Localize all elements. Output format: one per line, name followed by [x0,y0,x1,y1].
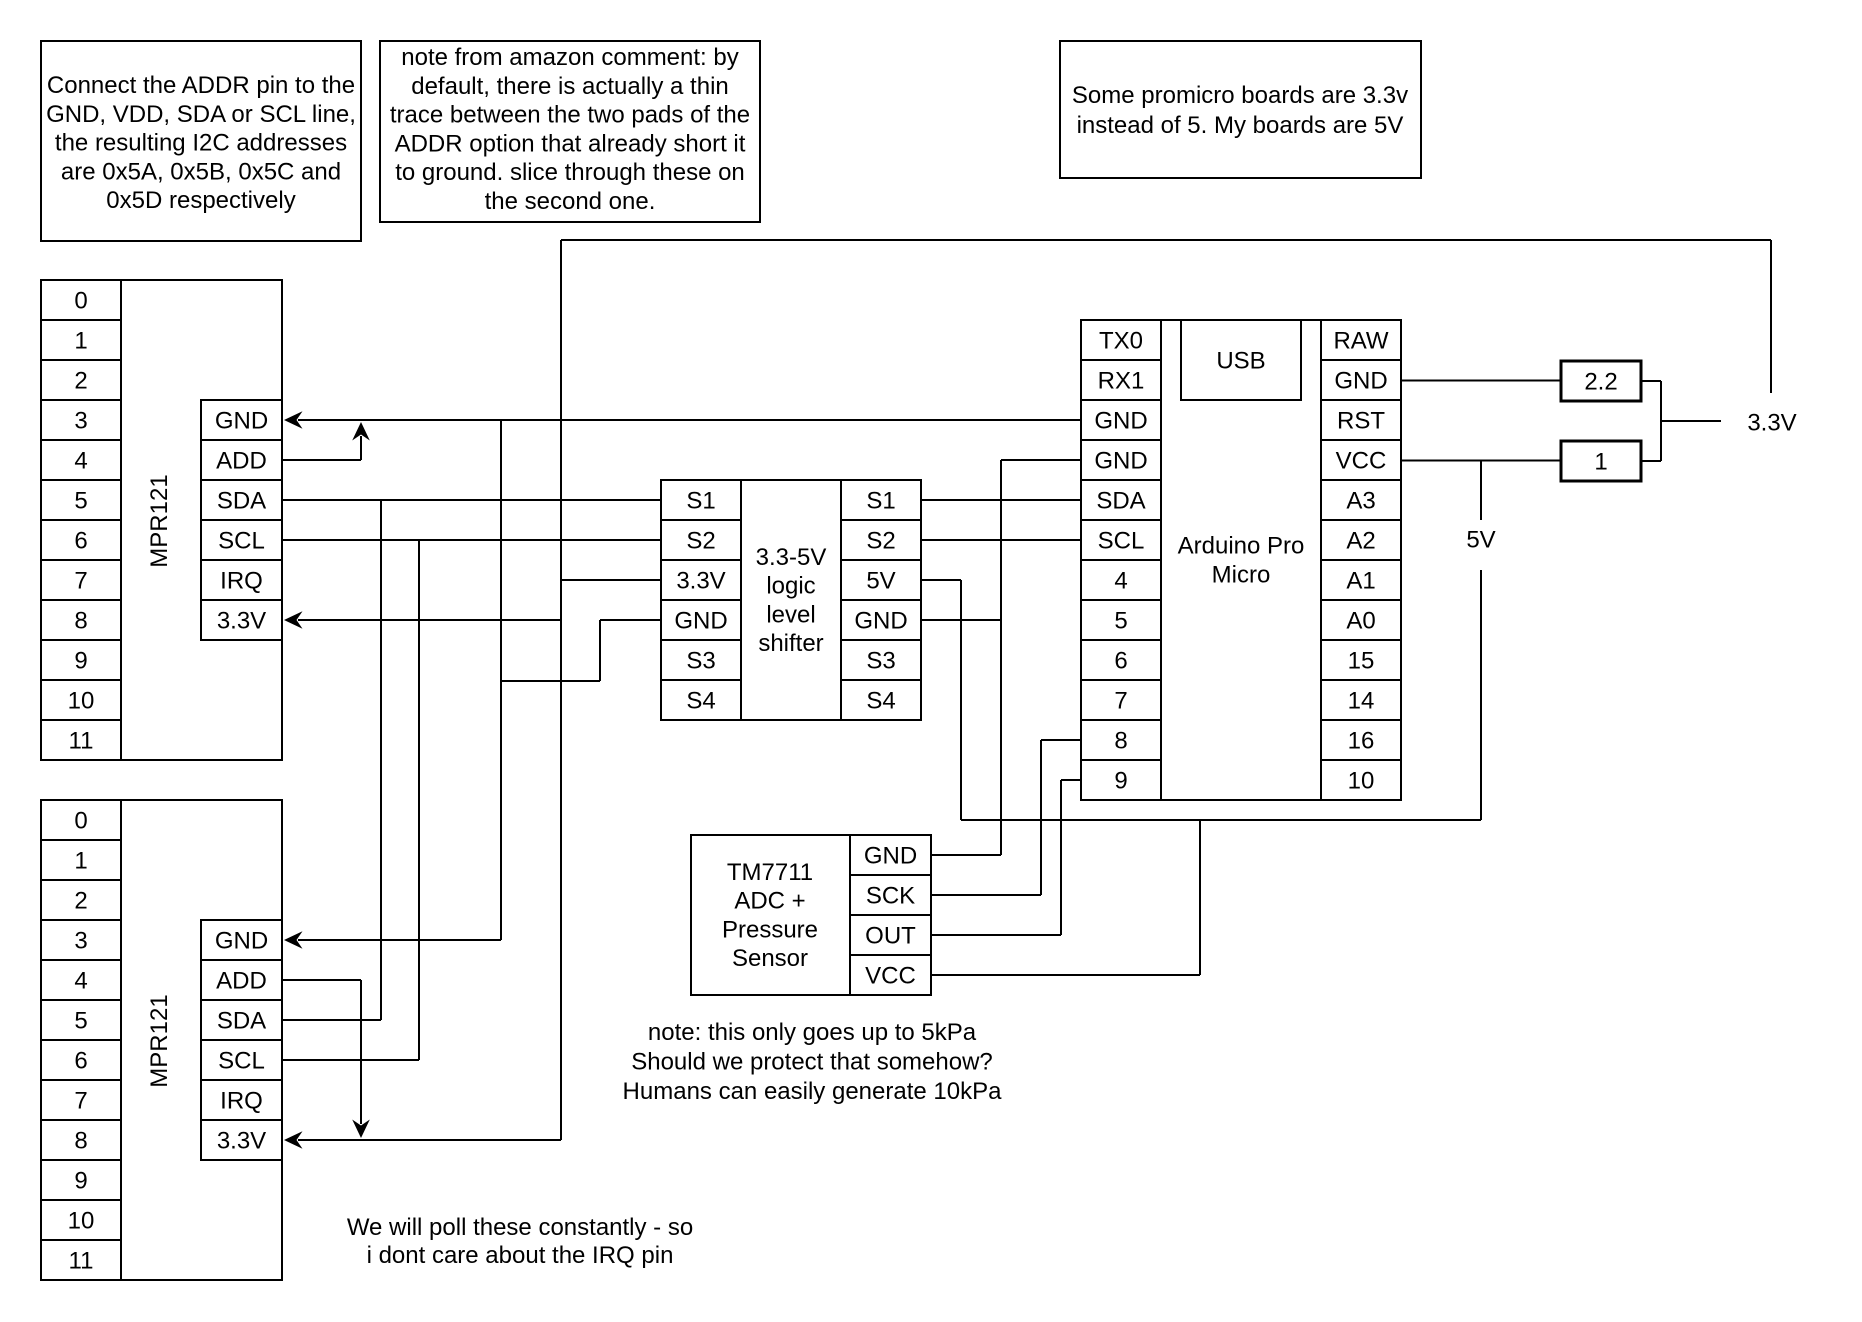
pin 3 [41,400,121,440]
svg-text:S3: S3 [866,648,895,675]
pin 6 [41,1040,121,1080]
wire U2 SCL stub [282,1059,419,1061]
pin GND [1081,440,1161,480]
wire SCL2 vertical [418,540,420,1060]
arrow into U1 3.3V [284,611,303,629]
svg-text:VCC: VCC [1336,448,1387,475]
pin 4 [41,960,121,1000]
svg-text:4: 4 [74,448,87,475]
pin S1 [841,480,921,520]
svg-text:SCL: SCL [218,528,265,555]
svg-text:S1: S1 [686,488,715,515]
wire U3 S2 to Arduino SCL [921,539,1081,541]
wire GND jog vertical [599,620,601,681]
svg-text:3: 3 [74,928,87,955]
note box: ADDR pin connection note [41,41,361,241]
pin 10 [1321,760,1401,800]
pin 8 [1081,720,1161,760]
arrow into U2 3.3V [284,1131,303,1149]
svg-text:GND: GND [1094,408,1147,435]
wire U5 GND stub [931,854,1001,856]
note box: promicro board voltage [1060,41,1421,178]
svg-text:RST: RST [1337,408,1385,435]
pin 1 [41,840,121,880]
pin IRQ [201,1080,282,1120]
wire GND jog to trunk [501,680,600,682]
pin 10 [41,1200,121,1240]
wire SCL1: U1 SCL to U3 S2 [282,539,661,541]
pin 5 [41,1000,121,1040]
svg-text:ADD: ADD [216,968,267,995]
wire 3.3V top run [561,239,1771,241]
pin ADD [201,440,282,480]
pin 1 [41,320,121,360]
wire U1 ADD riser to GND wire [360,436,362,460]
svg-text:A3: A3 [1346,488,1375,515]
pin A3 [1321,480,1401,520]
svg-text:GND: GND [864,843,917,870]
wire U5 SCK stub [931,894,1041,896]
svg-text:4: 4 [1114,568,1127,595]
svg-text:A2: A2 [1346,528,1375,555]
pin VCC [850,955,931,995]
pin IRQ [201,560,282,600]
wire 3.3V feed drop to label [1770,240,1772,393]
U1 electrode pin column 0-11 [41,280,121,760]
pin 5 [41,480,121,520]
wire SCK riser [1040,740,1042,895]
wire 5V riser upper segment [1480,460,1482,520]
svg-text:We will poll these constantly: We will poll these constantly - soi dont… [347,1214,693,1269]
svg-text:SCK: SCK [866,883,915,910]
pin SCL [1081,520,1161,560]
svg-text:SDA: SDA [217,1008,266,1035]
pin GND [1321,360,1401,400]
pin 9 [1081,760,1161,800]
U2 electrode pin column 0-11 [41,800,121,1280]
note box: amazon comment about ADDR trace [380,41,760,222]
wire 5V drop to U5 VCC [1199,820,1201,975]
pin 9 [41,1160,121,1200]
svg-text:RX1: RX1 [1098,368,1145,395]
svg-text:VCC: VCC [865,963,916,990]
wire U3 S1 to Arduino SDA [921,499,1081,501]
pin RST [1321,400,1401,440]
pin 14 [1321,680,1401,720]
svg-text:9: 9 [74,648,87,675]
svg-text:3.3V: 3.3V [217,1128,266,1155]
pin 8 [41,1120,121,1160]
wire U3 3.3V stub [561,579,661,581]
svg-text:SDA: SDA [217,488,266,515]
svg-text:6: 6 [1114,648,1127,675]
wire U2 ADD stub [282,979,361,981]
arrow U2 ADD to 3.3V junction [352,1120,370,1139]
pin RAW [1321,320,1401,360]
svg-text:GND: GND [854,608,907,635]
wire 5V riser right of U3 [960,580,962,820]
svg-text:8: 8 [1114,728,1127,755]
pin SDA [201,1000,282,1040]
svg-text:5: 5 [74,1008,87,1035]
wire SDA1: U1 SDA to U3 S1 [282,499,661,501]
pin SDA [201,480,282,520]
svg-text:5V: 5V [1466,527,1495,554]
pin 4 [1081,560,1161,600]
pin 3 [41,920,121,960]
wire Arduino VCC to R2 [1401,460,1561,462]
svg-text:S4: S4 [686,688,715,715]
pin 7 [41,560,121,600]
wire GND riser to Arduino GND2 [1000,460,1002,855]
wire R2 right stub [1641,460,1661,462]
svg-text:11: 11 [69,728,94,755]
svg-text:4: 4 [74,968,87,995]
svg-text:7: 7 [74,568,87,595]
svg-text:ADD: ADD [216,448,267,475]
wire GND to U3 GND jog horizontal [600,619,661,621]
pin SCL [201,1040,282,1080]
wire U2 ADD drop to 3.3V wire [360,980,362,1124]
pin 5V [841,560,921,600]
pin 8 [41,600,121,640]
svg-text:3.3V: 3.3V [1747,410,1796,437]
pin S2 [841,520,921,560]
svg-text:TM7711ADC +PressureSensor: TM7711ADC +PressureSensor [722,858,818,971]
pin RX1 [1081,360,1161,400]
pin GND [1081,400,1161,440]
svg-text:5: 5 [1114,608,1127,635]
pin S4 [841,680,921,720]
pin 7 [1081,680,1161,720]
svg-text:3.3V: 3.3V [217,608,266,635]
pin 6 [1081,640,1161,680]
svg-text:9: 9 [74,1168,87,1195]
pin 9 [41,640,121,680]
svg-text:IRQ: IRQ [220,568,263,595]
wire Arduino GND to R1 [1401,380,1561,382]
touch sensor U2 MPR121 (lower) body [121,800,282,1280]
svg-text:GND: GND [674,608,727,635]
sensor U5 TM7711 ADC + Pressure Sensor body [691,835,850,995]
svg-text:5: 5 [74,488,87,515]
arrow into U2 GND [284,931,303,949]
svg-text:7: 7 [1114,688,1127,715]
svg-text:GND: GND [215,928,268,955]
U4 left pins TX0 RX1 GND GND SDA SCL 4 5 6 7 8 9 [1081,320,1161,800]
wire Arduino pin8 stub [1041,739,1081,741]
wire U2 SDA stub [282,1019,381,1021]
svg-text:3.3V: 3.3V [676,568,725,595]
U3 low-voltage side pins S1 S2 3.3V GND S3 S4 [661,480,741,720]
svg-text:2: 2 [74,368,87,395]
wire Arduino GND2 stub [1001,459,1081,461]
svg-text:OUT: OUT [865,923,916,950]
svg-text:11: 11 [69,1248,94,1275]
wire GND2 run into U2 GND [298,939,501,941]
pin SCK [850,875,931,915]
pin GND [850,835,931,875]
svg-text:TX0: TX0 [1099,328,1143,355]
pin GND [661,600,741,640]
pin GND [841,600,921,640]
pin 15 [1321,640,1401,680]
wire 3.3V vertical trunk [560,240,562,1140]
svg-text:3: 3 [74,408,87,435]
svg-text:SCL: SCL [218,1048,265,1075]
svg-text:IRQ: IRQ [220,1088,263,1115]
svg-text:8: 8 [74,608,87,635]
pin A1 [1321,560,1401,600]
svg-text:SDA: SDA [1096,488,1145,515]
pin A0 [1321,600,1401,640]
svg-text:10: 10 [68,688,95,715]
svg-text:GND: GND [215,408,268,435]
pin 0 [41,280,121,320]
wire U3 GND stub to GND riser [921,619,1001,621]
svg-text:15: 15 [1348,648,1375,675]
pin ADD [201,960,282,1000]
svg-text:9: 9 [1114,768,1127,795]
wire OUT riser [1060,780,1062,935]
svg-text:A0: A0 [1346,608,1375,635]
svg-text:5V: 5V [866,568,895,595]
wire U3 5V stub [921,579,961,581]
microcontroller U4 Arduino Pro Micro body [1161,320,1321,800]
pin A2 [1321,520,1401,560]
wire resistor bus vertical [1660,381,1662,461]
svg-text:S3: S3 [686,648,715,675]
U4 USB connector [1181,320,1301,400]
pin OUT [850,915,931,955]
pin 5 [1081,600,1161,640]
svg-text:S2: S2 [866,528,895,555]
pin 11 [41,1240,121,1280]
svg-text:RAW: RAW [1333,328,1388,355]
wire SDA2 vertical [380,500,382,1020]
wire bus to 3.3V label [1661,420,1721,422]
svg-text:1: 1 [74,328,87,355]
wire 3.3V run into U2 3.3V [298,1139,561,1141]
pin 4 [41,440,121,480]
svg-text:14: 14 [1348,688,1375,715]
wire R1 right stub [1641,380,1661,382]
U5 pins GND SCK OUT VCC [850,835,931,995]
U3 high-voltage side pins S1 S2 5V GND S3 S4 [841,480,921,720]
wire Arduino pin9 stub [1061,779,1081,781]
pin S3 [841,640,921,680]
wire U5 VCC stub [931,974,1200,976]
svg-text:1: 1 [74,848,87,875]
svg-text:10: 10 [68,1208,95,1235]
wire U1 ADD stub [282,459,361,461]
arrow into U1 GND [284,411,303,429]
svg-text:0: 0 [74,288,87,315]
svg-text:16: 16 [1348,728,1375,755]
touch sensor U1 MPR121 (upper) body [121,280,282,760]
svg-text:SCL: SCL [1098,528,1145,555]
wire 5V horizontal run [961,819,1481,821]
pin GND [201,920,282,960]
pin S1 [661,480,741,520]
pin VCC [1321,440,1401,480]
pin 6 [41,520,121,560]
svg-text:0: 0 [74,808,87,835]
resistor R1 2.2 [1561,361,1641,401]
wire U1 3.3V run [298,619,561,621]
pin 2 [41,360,121,400]
U2 interface pins GND ADD SDA SCL IRQ 3.3V [201,920,282,1160]
pin S2 [661,520,741,560]
pin 7 [41,1080,121,1120]
resistor R2 1 [1561,441,1641,481]
pin 3.3V [661,560,741,600]
svg-text:S4: S4 [866,688,895,715]
svg-text:GND: GND [1334,368,1387,395]
svg-text:6: 6 [74,1048,87,1075]
svg-text:USB: USB [1216,348,1265,375]
svg-text:8: 8 [74,1128,87,1155]
svg-text:2.2: 2.2 [1584,369,1617,396]
svg-text:MPR121: MPR121 [146,474,173,567]
svg-text:note: this only goes up to 5kP: note: this only goes up to 5kPaShould we… [623,1019,1003,1105]
wire U5 OUT stub [931,934,1061,936]
pin 16 [1321,720,1401,760]
pin TX0 [1081,320,1161,360]
U1 interface pins GND ADD SDA SCL IRQ 3.3V [201,400,282,640]
pin 0 [41,800,121,840]
pin 3.3V [201,600,282,640]
pin 11 [41,720,121,760]
wire GND vertical trunk [500,420,502,940]
wire 5V riser lower segment [1480,570,1482,820]
wire GND1: U1 GND to Arduino GND [298,419,1081,421]
pin 10 [41,680,121,720]
svg-text:1: 1 [1594,449,1607,476]
pin GND [201,400,282,440]
pin S4 [661,680,741,720]
svg-text:GND: GND [1094,448,1147,475]
pin SDA [1081,480,1161,520]
svg-text:MPR121: MPR121 [146,994,173,1087]
svg-text:6: 6 [74,528,87,555]
pin SCL [201,520,282,560]
arrow U1 ADD to GND junction [352,422,370,441]
svg-text:A1: A1 [1346,568,1375,595]
pin 3.3V [201,1120,282,1160]
svg-text:S2: S2 [686,528,715,555]
pin S3 [661,640,741,680]
level shifter U3 body 3.3-5V logic level shifter [741,480,841,720]
svg-text:10: 10 [1348,768,1375,795]
svg-text:2: 2 [74,888,87,915]
U4 right pins RAW GND RST VCC A3 A2 A1 A0 15 14 16 10 [1321,320,1401,800]
svg-text:S1: S1 [866,488,895,515]
svg-text:7: 7 [74,1088,87,1115]
pin 2 [41,880,121,920]
